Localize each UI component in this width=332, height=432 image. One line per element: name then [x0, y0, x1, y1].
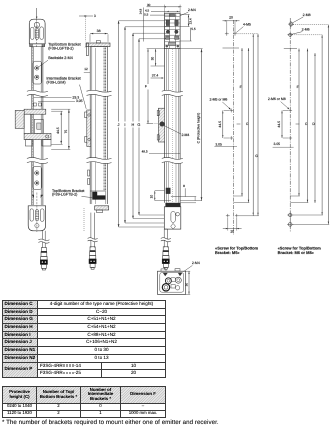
svg-text:75: 75	[64, 130, 68, 134]
svg-text:13.4: 13.4	[189, 18, 193, 24]
svg-text:5.5: 5.5	[144, 13, 149, 17]
svg-text:4-M5: 4-M5	[243, 22, 251, 26]
svg-text:G: G	[255, 154, 258, 158]
svg-text:44.5: 44.5	[56, 127, 60, 134]
svg-text:20: 20	[229, 16, 233, 20]
svg-text:5.5: 5.5	[191, 27, 196, 31]
svg-text:(F39-LGIM): (F39-LGIM)	[46, 80, 65, 84]
svg-text:2-M4: 2-M4	[192, 261, 200, 265]
svg-text:F: F	[240, 85, 242, 89]
svg-text:J: J	[118, 123, 120, 127]
svg-text:2-M5 or M6: 2-M5 or M6	[210, 98, 228, 102]
svg-text:3: 3	[94, 14, 96, 18]
svg-text:44.5: 44.5	[277, 121, 281, 128]
svg-text:30: 30	[147, 3, 151, 7]
svg-text:30: 30	[185, 283, 189, 287]
svg-text:37.4: 37.4	[152, 74, 159, 78]
svg-text:2-M6 or M8: 2-M6 or M8	[268, 97, 286, 101]
svg-text:G: G	[137, 123, 140, 127]
svg-text:C (Protective height): C (Protective height)	[197, 113, 201, 144]
svg-text:Backside 2-M4: Backside 2-M4	[48, 56, 73, 60]
svg-text:14.8: 14.8	[139, 8, 143, 14]
svg-text:2-M8: 2-M8	[303, 13, 311, 17]
svg-text:38: 38	[97, 29, 101, 33]
svg-text:8: 8	[183, 184, 185, 188]
svg-text:30: 30	[150, 57, 154, 61]
svg-text:(F39-LGFTB-2): (F39-LGFTB-2)	[48, 46, 73, 50]
svg-text:Bracket: M5»: Bracket: M5»	[215, 250, 240, 255]
svg-text:3.05: 3.05	[76, 99, 83, 103]
svg-text:F: F	[145, 85, 148, 89]
svg-text:Bracket: M6 or M8»: Bracket: M6 or M8»	[278, 250, 315, 255]
svg-text:44.5: 44.5	[218, 121, 222, 128]
svg-text:H: H	[132, 123, 135, 127]
svg-text:10: 10	[150, 195, 154, 199]
svg-text:(F39-LGFTB-2): (F39-LGFTB-2)	[52, 193, 77, 197]
svg-text:F: F	[297, 85, 299, 89]
svg-text:3.05: 3.05	[215, 143, 222, 147]
svg-text:2-M4: 2-M4	[188, 8, 196, 12]
svg-text:20: 20	[230, 230, 234, 234]
svg-text:49.5: 49.5	[142, 150, 148, 154]
svg-text:2-M6: 2-M6	[302, 27, 310, 31]
svg-text:I: I	[124, 123, 125, 127]
svg-text:12: 12	[84, 67, 88, 71]
svg-text:3.05: 3.05	[274, 142, 281, 146]
svg-text:2-M4: 2-M4	[181, 133, 189, 137]
